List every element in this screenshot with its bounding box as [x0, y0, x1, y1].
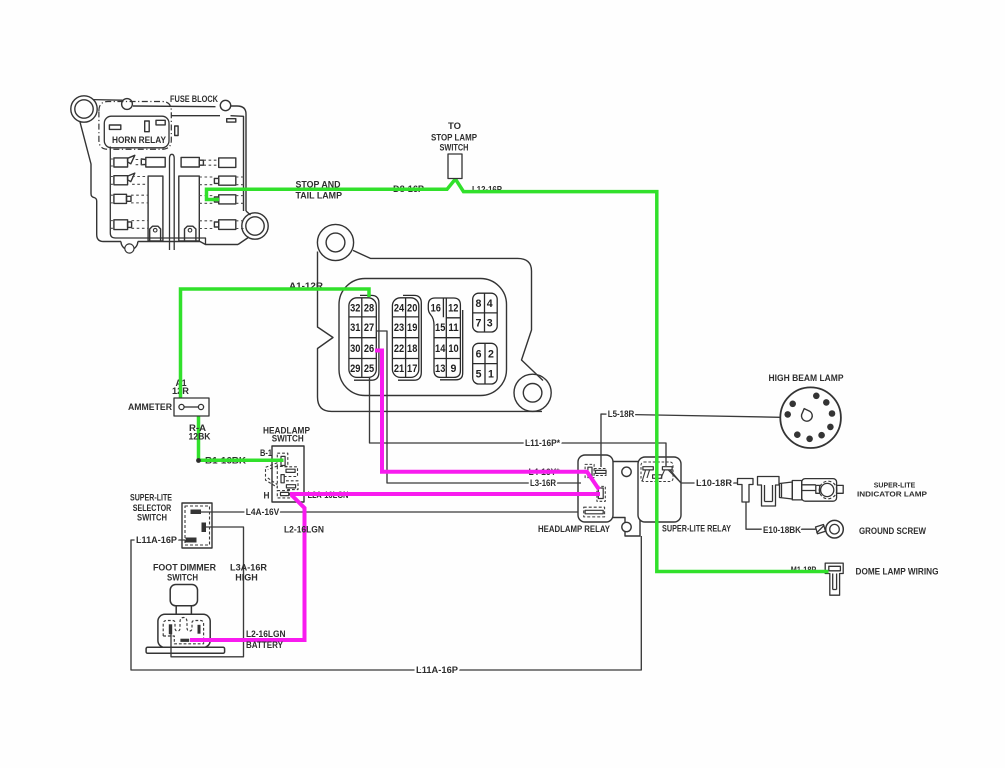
svg-text:3: 3 — [487, 317, 493, 329]
svg-text:19: 19 — [407, 322, 417, 334]
svg-text:L4A-16V: L4A-16V — [246, 507, 280, 517]
svg-text:10: 10 — [448, 343, 458, 355]
svg-text:18: 18 — [407, 343, 417, 355]
svg-text:17: 17 — [407, 363, 417, 375]
svg-text:2: 2 — [488, 348, 494, 360]
svg-text:L3-16R: L3-16R — [530, 478, 556, 488]
svg-text:24: 24 — [394, 302, 404, 314]
svg-text:6: 6 — [476, 348, 482, 360]
svg-text:13: 13 — [435, 363, 445, 375]
svg-text:14: 14 — [435, 343, 445, 355]
svg-text:12BK: 12BK — [189, 432, 211, 442]
svg-text:INDICATOR LAMP: INDICATOR LAMP — [857, 492, 927, 499]
svg-text:27: 27 — [364, 322, 374, 334]
svg-text:8: 8 — [475, 298, 481, 310]
svg-text:HEADLAMP RELAY: HEADLAMP RELAY — [538, 524, 610, 534]
svg-text:SUPER-LITE: SUPER-LITE — [130, 493, 172, 503]
svg-text:L2-16LGN: L2-16LGN — [246, 629, 286, 639]
svg-text:BATTERY: BATTERY — [246, 640, 283, 650]
svg-text:9: 9 — [451, 363, 457, 375]
svg-text:L5-18R: L5-18R — [608, 409, 635, 419]
svg-text:11: 11 — [448, 322, 458, 334]
svg-text:31: 31 — [350, 322, 360, 334]
svg-text:L2-16LGN: L2-16LGN — [284, 525, 324, 535]
svg-text:HIGH BEAM LAMP: HIGH BEAM LAMP — [769, 373, 844, 383]
svg-text:16: 16 — [431, 302, 441, 314]
svg-text:25: 25 — [364, 363, 374, 375]
svg-text:H: H — [264, 491, 270, 501]
svg-text:L11A-16P: L11A-16P — [416, 665, 458, 675]
svg-text:TO: TO — [448, 121, 461, 131]
svg-text:SUPER-LITE: SUPER-LITE — [874, 483, 916, 490]
svg-text:4: 4 — [487, 298, 493, 310]
svg-text:FOOT DIMMER: FOOT DIMMER — [153, 563, 216, 573]
svg-text:22: 22 — [394, 343, 404, 355]
svg-text:STOP LAMP: STOP LAMP — [431, 133, 477, 143]
svg-text:AMMETER: AMMETER — [128, 402, 172, 412]
svg-text:B-1: B-1 — [260, 448, 272, 458]
svg-text:DOME LAMP WIRING: DOME LAMP WIRING — [856, 566, 939, 576]
svg-text:SWITCH: SWITCH — [137, 513, 167, 523]
svg-text:12: 12 — [448, 302, 458, 314]
svg-text:20: 20 — [407, 302, 417, 314]
svg-text:L11A-16P: L11A-16P — [136, 535, 177, 545]
svg-text:GROUND SCREW: GROUND SCREW — [859, 526, 926, 536]
svg-text:HORN RELAY: HORN RELAY — [112, 135, 166, 145]
svg-text:SWITCH: SWITCH — [272, 434, 304, 444]
svg-text:21: 21 — [394, 363, 404, 375]
svg-text:STOP AND: STOP AND — [296, 180, 341, 190]
svg-text:SWITCH: SWITCH — [440, 143, 469, 153]
svg-text:L3A-16R: L3A-16R — [230, 563, 268, 573]
svg-text:HIGH: HIGH — [235, 573, 258, 583]
svg-text:SELECTOR: SELECTOR — [133, 503, 172, 513]
svg-text:E10-18BK: E10-18BK — [763, 525, 801, 535]
svg-text:SUPER-LITE RELAY: SUPER-LITE RELAY — [662, 524, 731, 534]
svg-text:28: 28 — [364, 302, 374, 314]
svg-text:FUSE BLOCK: FUSE BLOCK — [170, 94, 218, 104]
svg-text:SWITCH: SWITCH — [167, 573, 198, 583]
svg-text:7: 7 — [475, 317, 481, 329]
svg-text:32: 32 — [350, 302, 360, 314]
svg-text:29: 29 — [350, 363, 360, 375]
svg-text:23: 23 — [394, 322, 404, 334]
svg-text:15: 15 — [435, 322, 445, 334]
svg-text:30: 30 — [350, 343, 360, 355]
svg-text:5: 5 — [476, 369, 482, 381]
svg-text:1: 1 — [488, 369, 494, 381]
svg-text:TAIL LAMP: TAIL LAMP — [296, 191, 343, 201]
svg-text:26: 26 — [364, 343, 374, 355]
svg-text:L11-16P*: L11-16P* — [525, 438, 560, 448]
svg-text:L10-18R: L10-18R — [696, 478, 733, 488]
